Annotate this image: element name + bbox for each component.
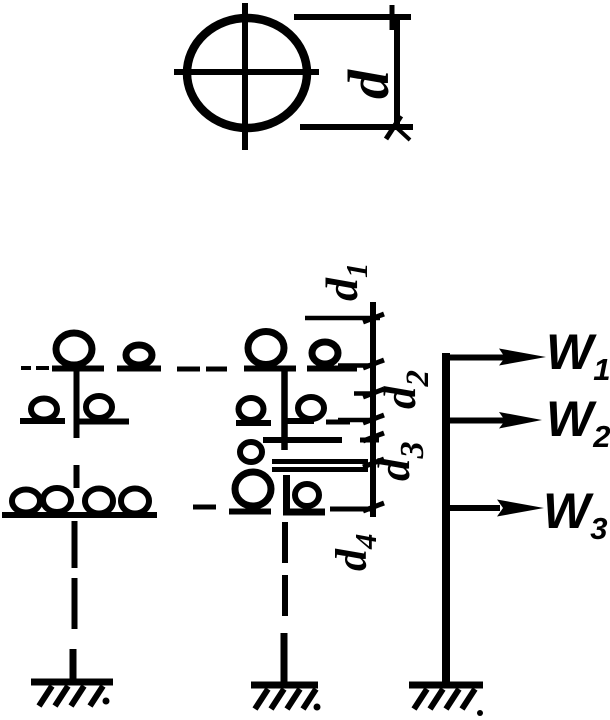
svg-text:d2: d2 — [375, 370, 436, 409]
svg-text:d3: d3 — [369, 442, 431, 482]
svg-text:d: d — [336, 69, 401, 99]
svg-text:W3: W3 — [543, 483, 607, 546]
svg-text:W2: W2 — [546, 391, 610, 454]
svg-text:W1: W1 — [546, 324, 610, 387]
svg-text:d4: d4 — [327, 534, 383, 572]
svg-text:d1: d1 — [316, 263, 374, 302]
